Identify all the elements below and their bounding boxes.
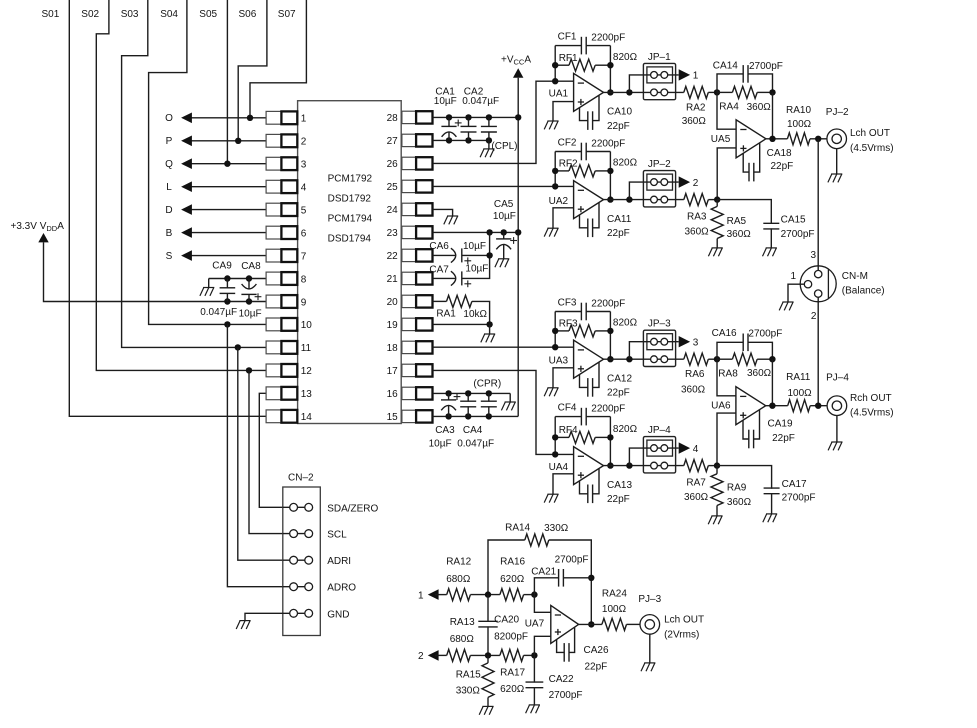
- svg-text:2200pF: 2200pF: [591, 139, 625, 150]
- pin JP-4 3: [651, 462, 658, 469]
- svg-text:S03: S03: [121, 9, 139, 20]
- ground pin24: [444, 216, 458, 224]
- wire S01 bus: [69, 0, 266, 416]
- svg-text:4: 4: [693, 444, 699, 455]
- capacitor CA26 22pF: [564, 643, 569, 662]
- svg-text:S07: S07: [278, 9, 296, 20]
- svg-text:CN-M: CN-M: [842, 271, 868, 282]
- connector PJ-4 outer: [827, 396, 847, 416]
- svg-text:RA10: RA10: [786, 105, 811, 116]
- pin box 14 outer: [266, 410, 281, 423]
- junction UA4 out branch: [626, 462, 632, 468]
- wire RA5 gnd lead: [716, 239, 718, 248]
- wire UA3 right node: [609, 312, 611, 360]
- svg-text:360Ω: 360Ω: [685, 227, 710, 238]
- junction pin27 row x468: [465, 137, 471, 143]
- wire CA18 right leg: [754, 143, 760, 172]
- pin JP-2 2: [661, 179, 668, 186]
- svg-text:22pF: 22pF: [771, 161, 794, 172]
- svg-text:15: 15: [387, 412, 399, 423]
- wire UA1 left node: [554, 46, 556, 82]
- svg-text:360Ω: 360Ω: [681, 384, 706, 395]
- resistor RA2 360ohm: [684, 86, 709, 98]
- junction CA9 bottom: [224, 298, 230, 304]
- op-amp UA5: [736, 120, 766, 158]
- wire UA6 output: [766, 405, 788, 407]
- ground CN-2: [236, 621, 250, 629]
- pin JP-3 4: [661, 356, 668, 363]
- wire UA3 left node: [554, 312, 556, 348]
- pin box 15 outer: [416, 410, 432, 422]
- op-amp UA6: [736, 387, 766, 425]
- pin JP-1 2: [661, 72, 668, 79]
- junction row2 left rail: [485, 652, 491, 658]
- pin CN-2 SCL a: [290, 530, 298, 538]
- chord CN-M flat: [827, 269, 829, 298]
- svg-text:2: 2: [811, 311, 817, 322]
- wire row2 c: [524, 654, 535, 656]
- svg-text:10µF: 10µF: [434, 96, 457, 107]
- op-amp UA4: [574, 447, 604, 485]
- junction pin15 row x488: [486, 413, 492, 419]
- wire CA26 left leg: [557, 640, 564, 653]
- pin box 2 outer: [266, 134, 281, 147]
- junction RF1 left: [552, 62, 558, 68]
- pin box 24 outer: [416, 203, 432, 215]
- svg-text:UA2: UA2: [549, 196, 569, 207]
- svg-text:18: 18: [387, 343, 399, 354]
- wire pin13 to SDA: [259, 393, 283, 507]
- wire row1 a: [435, 594, 447, 596]
- svg-text:24: 24: [387, 205, 399, 216]
- wire CA10 right leg: [593, 96, 599, 121]
- wire RF1 left lead: [555, 64, 569, 66]
- svg-text:3: 3: [301, 160, 307, 171]
- capacitor CA14 2700pF: [743, 65, 748, 83]
- pin box 5 inner: [281, 203, 297, 216]
- svg-text:1: 1: [418, 591, 424, 602]
- junction RF2 left: [552, 168, 558, 174]
- junction pin12: [246, 367, 252, 373]
- pin box 9 outer: [266, 295, 281, 308]
- wire CN-M pin2 to PJ-4 node: [817, 297, 819, 405]
- arrow signal B: [181, 227, 192, 238]
- junction CA9 top: [224, 275, 230, 281]
- wire CA22 gnd lead: [533, 687, 535, 705]
- junction UA3 out: [607, 356, 613, 362]
- svg-text:CF3: CF3: [558, 298, 577, 309]
- svg-text:RA14: RA14: [505, 522, 530, 533]
- svg-text:360Ω: 360Ω: [727, 229, 752, 240]
- svg-text:620Ω: 620Ω: [500, 574, 525, 585]
- junction pin27 row x449: [446, 137, 452, 143]
- wire RA5 top lead: [716, 200, 718, 207]
- arrow signal L: [181, 181, 192, 192]
- wire pin 6 row: [186, 232, 266, 234]
- wire pin20 lead: [433, 300, 447, 302]
- junction pin23 a: [486, 229, 492, 235]
- pin box 23 outer: [416, 226, 432, 238]
- wire RA2 right lead: [708, 91, 717, 93]
- wire CA12 right leg: [593, 362, 599, 387]
- svg-text:CA14: CA14: [713, 60, 738, 71]
- pin box 12 outer: [266, 364, 281, 377]
- wire CA9 bottom lead: [226, 294, 228, 302]
- arrow signal S: [181, 250, 192, 261]
- svg-text:Q: Q: [165, 159, 173, 170]
- svg-text:RF4: RF4: [559, 425, 578, 436]
- capacitor CA11 22pF: [588, 219, 593, 238]
- wire pin 1 row: [186, 117, 266, 119]
- resistor RA10 100ohm: [787, 133, 810, 145]
- connector CN-M body: [800, 266, 836, 302]
- svg-text:D: D: [165, 205, 172, 216]
- wire left rail CA20 bottom: [487, 626, 489, 655]
- ground UA1 +in: [544, 121, 558, 129]
- svg-text:820Ω: 820Ω: [613, 318, 638, 329]
- junction pin16 row x448: [445, 390, 451, 396]
- svg-text:4: 4: [301, 183, 307, 194]
- pin CN-2 ADRI a: [290, 556, 298, 564]
- ground CA5: [495, 259, 509, 267]
- ground pin8: [200, 288, 214, 296]
- wire CA5 gnd lead: [503, 245, 505, 259]
- svg-text:27: 27: [387, 136, 399, 147]
- svg-text:CA20: CA20: [494, 614, 519, 625]
- junction RF3 right: [607, 328, 613, 334]
- pin box 12 inner: [281, 364, 297, 377]
- svg-text:(Balance): (Balance): [842, 285, 885, 296]
- pin box 9 inner: [281, 295, 297, 308]
- svg-text:PJ–3: PJ–3: [638, 594, 661, 605]
- svg-text:820Ω: 820Ω: [613, 158, 638, 169]
- jumper JP-3 outer box: [643, 330, 675, 366]
- pin box 2 inner: [281, 134, 297, 147]
- wire S02 bus: [96, 0, 266, 370]
- svg-text:7: 7: [301, 251, 307, 262]
- resistor RF3 820ohm: [569, 325, 595, 337]
- junction pin3/S05: [224, 161, 230, 167]
- pin CN-2 ADRO a: [290, 583, 298, 591]
- resistor RA17 620ohm: [500, 649, 524, 661]
- junction pin16 row x488: [486, 390, 492, 396]
- wire UA3 +in to gnd: [553, 368, 574, 388]
- arrow JP-4 out: [679, 442, 690, 453]
- wire UA2 out to JP upper: [629, 182, 643, 200]
- pin box 21 outer: [416, 272, 432, 284]
- svg-text:JP–2: JP–2: [648, 159, 671, 170]
- pin box 23 inner: [402, 226, 416, 238]
- pin box 15 inner: [402, 410, 416, 422]
- svg-text:RF1: RF1: [559, 53, 578, 64]
- pin box 14 inner: [281, 410, 297, 423]
- svg-text:S: S: [166, 251, 173, 262]
- arrow JP-1 out: [679, 69, 690, 80]
- pin box 26 inner: [402, 157, 416, 169]
- wire CN-2 SDA/ZERO row: [283, 506, 313, 508]
- svg-text:UA5: UA5: [711, 134, 731, 145]
- capacitor CA16 2700pF: [743, 334, 748, 352]
- svg-text:UA6: UA6: [711, 400, 731, 411]
- wire CA8 bottom lead: [248, 294, 250, 301]
- wire CA16 branch: [717, 342, 743, 359]
- pin JP-2 3: [651, 196, 658, 203]
- pin box 1 outer: [266, 111, 281, 124]
- capacitor CF2 2200pF: [581, 143, 586, 161]
- junction J1 RA2/RA4/CA14: [714, 89, 720, 95]
- svg-text:RA1: RA1: [436, 309, 456, 320]
- wire PJ-2 gnd stub: [836, 149, 838, 174]
- svg-text:14: 14: [301, 412, 313, 423]
- svg-text:PJ–4: PJ–4: [826, 373, 849, 384]
- capacitor CPR: [481, 401, 497, 407]
- pin box 10 inner: [281, 318, 297, 331]
- svg-text:ADRO: ADRO: [327, 583, 356, 594]
- svg-text:UA3: UA3: [549, 356, 569, 367]
- junction row1 left rail: [485, 591, 491, 597]
- wire CA7 to node: [462, 255, 490, 278]
- svg-text:680Ω: 680Ω: [446, 574, 471, 585]
- wire CPR cap lead2: [488, 406, 490, 416]
- resistor RF4 820ohm: [569, 431, 595, 443]
- wire pin8 gnd stub: [208, 279, 210, 288]
- pin CN-2 ADRI b: [305, 556, 313, 564]
- arrow JP-2 out: [679, 176, 690, 187]
- wire CA1 top lead: [448, 117, 450, 126]
- pin box 6 inner: [281, 226, 297, 239]
- wire CA5 top lead: [503, 232, 505, 239]
- svg-text:3: 3: [810, 250, 816, 261]
- wire CA8 top lead: [248, 279, 250, 289]
- svg-text:PCM1794: PCM1794: [328, 213, 373, 224]
- pin box 13 inner: [281, 387, 297, 400]
- svg-text:CA21: CA21: [531, 566, 556, 577]
- resistor RA4 360ohm: [732, 86, 757, 98]
- svg-text:(4.5Vrms): (4.5Vrms): [850, 143, 894, 154]
- pin box 13 outer: [266, 387, 281, 400]
- svg-text:CA3: CA3: [435, 425, 455, 436]
- svg-text:23: 23: [387, 228, 399, 239]
- wire CA15 gnd lead: [770, 228, 772, 248]
- pin box 25 outer: [416, 180, 432, 192]
- svg-text:2: 2: [418, 651, 424, 662]
- wire PJ-3 gnd stub: [649, 634, 651, 663]
- svg-text:22pF: 22pF: [607, 121, 630, 132]
- resistor RF2 820ohm: [569, 165, 595, 177]
- ground CPL: [480, 149, 494, 157]
- svg-text:0.047µF: 0.047µF: [200, 307, 237, 318]
- svg-text:2700pF: 2700pF: [781, 229, 815, 240]
- pin CN-M 1: [804, 281, 811, 288]
- svg-text:CA6: CA6: [429, 241, 449, 252]
- junction UA2 out branch: [626, 196, 632, 202]
- wire pin27 row: [433, 139, 489, 141]
- wire UA7 output: [579, 623, 602, 625]
- pin box 4 outer: [266, 180, 281, 193]
- connector CN-2 box: [283, 487, 321, 636]
- wire CF4 right segment: [586, 416, 610, 418]
- wire pin18 to UA3 -in: [433, 346, 574, 348]
- jumper JP-1 inner box: [647, 67, 673, 83]
- ground PJ-3: [641, 663, 655, 671]
- svg-text:360Ω: 360Ω: [747, 368, 772, 379]
- svg-text:UA4: UA4: [549, 462, 569, 473]
- resistor RF1 820ohm: [569, 59, 595, 71]
- wire UA2 +in to gnd: [553, 208, 574, 228]
- connector PJ-2 outer: [827, 129, 847, 149]
- wire CA4 leads: [467, 393, 469, 401]
- ground CA22: [526, 705, 540, 713]
- junction UA2 out: [607, 196, 613, 202]
- svg-text:Lch OUT: Lch OUT: [850, 128, 890, 139]
- wire RF4 left lead: [555, 436, 569, 438]
- pin box 18 inner: [402, 341, 416, 353]
- capacitor CA1: [441, 126, 456, 136]
- pin JP-2 1: [651, 179, 658, 186]
- pin box 10 outer: [266, 318, 281, 331]
- svg-text:100Ω: 100Ω: [788, 388, 813, 399]
- connector PJ-2 inner: [832, 134, 841, 143]
- svg-text:RF3: RF3: [559, 319, 578, 330]
- svg-text:10µF: 10µF: [429, 438, 452, 449]
- wire JP-3 upper row: [643, 341, 678, 343]
- wire row2 b: [470, 654, 500, 656]
- svg-text:2700pF: 2700pF: [555, 554, 589, 565]
- resistor RA7 360ohm: [684, 460, 709, 472]
- wire RA6 right lead: [708, 358, 717, 360]
- wire pin28 row: [433, 116, 519, 118]
- wire JP-3 lower row: [643, 358, 683, 360]
- junction J2 RA3/RA5/CA15: [714, 196, 720, 202]
- svg-text:Lch OUT: Lch OUT: [664, 614, 704, 625]
- capacitor CF1 2200pF: [581, 37, 586, 55]
- wire RA14 loop right: [549, 540, 592, 624]
- svg-text:CA15: CA15: [781, 214, 806, 225]
- arrow signal Q: [181, 158, 192, 169]
- svg-text:CA12: CA12: [607, 374, 632, 385]
- svg-text:1: 1: [693, 71, 699, 82]
- capacitor CA8: [241, 284, 256, 294]
- wire row1 b: [470, 594, 500, 596]
- wire CA5/CA6 node: [489, 232, 491, 255]
- ground CN-M pin1: [779, 302, 793, 310]
- svg-text:CF4: CF4: [558, 403, 577, 414]
- junction PJ-2 node: [815, 136, 821, 142]
- wire pin19 gnd stub: [489, 324, 491, 334]
- wire CA3 bottom lead: [448, 406, 450, 417]
- pin box 28 outer: [416, 111, 432, 123]
- resistor RA16 620ohm: [500, 589, 524, 601]
- pin box 1 inner: [281, 111, 297, 124]
- svg-text:GND: GND: [327, 609, 349, 620]
- svg-text:16: 16: [387, 389, 399, 400]
- op-amp UA3: [574, 340, 604, 378]
- capacitor CA15 2700pF: [763, 223, 779, 229]
- capacitor CA5: [496, 239, 511, 249]
- connector PJ-3 outer: [640, 615, 660, 635]
- junction RF1 right: [607, 62, 613, 68]
- wire UA7 +in: [534, 636, 550, 655]
- svg-text:680Ω: 680Ω: [450, 634, 475, 645]
- svg-text:2: 2: [301, 137, 307, 148]
- svg-text:SDA/ZERO: SDA/ZERO: [327, 503, 378, 514]
- resistor RA14 330ohm: [525, 534, 549, 546]
- wire CPR gnd stub: [509, 393, 511, 402]
- svg-text:RA11: RA11: [786, 372, 811, 383]
- svg-text:RA7: RA7: [686, 478, 706, 489]
- wire UA5 +in: [717, 148, 736, 200]
- svg-text:RA16: RA16: [500, 557, 525, 568]
- svg-text:28: 28: [387, 113, 399, 124]
- wire UA6 -in: [717, 359, 736, 396]
- arrow output 2: [428, 650, 439, 661]
- svg-text:0.047µF: 0.047µF: [462, 96, 499, 107]
- pin box 25 inner: [402, 180, 416, 192]
- capacitor CA2: [461, 126, 477, 132]
- wire CA18 left leg: [743, 153, 749, 172]
- wire CA16 right: [748, 342, 772, 359]
- svg-text:JP–1: JP–1: [648, 52, 671, 63]
- wire CF1 left segment: [555, 45, 581, 47]
- pin JP-1 4: [661, 89, 668, 96]
- svg-text:CA4: CA4: [463, 425, 483, 436]
- svg-text:22pF: 22pF: [607, 388, 630, 399]
- ground UA2 +in: [544, 228, 558, 236]
- wire CA2 bottom lead: [468, 132, 470, 140]
- ground RA1: [481, 334, 495, 342]
- svg-text:2200pF: 2200pF: [591, 404, 625, 415]
- ground RA9: [708, 516, 722, 524]
- wire PJ-2 node to CN-M pin3: [817, 139, 819, 271]
- wire CA10 left leg: [580, 108, 588, 121]
- wire RA4 node to UA5 out: [772, 92, 774, 138]
- jumper JP-3 inner box: [647, 334, 673, 350]
- svg-text:10µF: 10µF: [465, 264, 488, 275]
- pin box 20 inner: [402, 295, 416, 307]
- svg-text:(CPL): (CPL): [491, 141, 517, 152]
- junction CA6/CA7 node: [486, 252, 492, 258]
- ground PJ-4: [828, 442, 842, 450]
- wire RF3 left lead: [555, 330, 569, 332]
- wire left rail CA20 top: [487, 595, 489, 622]
- svg-text:RA5: RA5: [727, 216, 747, 227]
- wire pin11 to ADRI: [238, 347, 283, 560]
- wire CA4 lead2: [467, 406, 469, 416]
- connector PJ-4 inner: [832, 401, 841, 410]
- wire UA3 out to JP upper: [629, 342, 643, 360]
- pin CN-2 SDA/ZERO b: [305, 503, 313, 511]
- wire RF2 right lead: [595, 170, 610, 172]
- wire pin16 row: [433, 392, 511, 394]
- pin box 8 inner: [281, 272, 297, 285]
- wire CA9 top lead: [226, 279, 228, 288]
- svg-text:22pF: 22pF: [607, 494, 630, 505]
- wire CPL cap top lead: [488, 117, 490, 126]
- svg-text:17: 17: [387, 366, 399, 377]
- wire CA6 to node: [462, 254, 490, 256]
- jumper JP-4 outer box: [643, 437, 675, 473]
- svg-text:L: L: [166, 182, 172, 193]
- wire RF2 left lead: [555, 170, 569, 172]
- connector PJ-3 inner: [645, 620, 654, 629]
- pin box 6 outer: [266, 226, 281, 239]
- wire CN-M pin1 gnd: [788, 284, 804, 302]
- wire JP-1 upper row: [643, 74, 678, 76]
- pin box 7 outer: [266, 249, 281, 262]
- resistor RA13 680ohm: [447, 649, 471, 661]
- svg-text:CA18: CA18: [767, 148, 792, 159]
- wire VDDA rail: [44, 242, 267, 301]
